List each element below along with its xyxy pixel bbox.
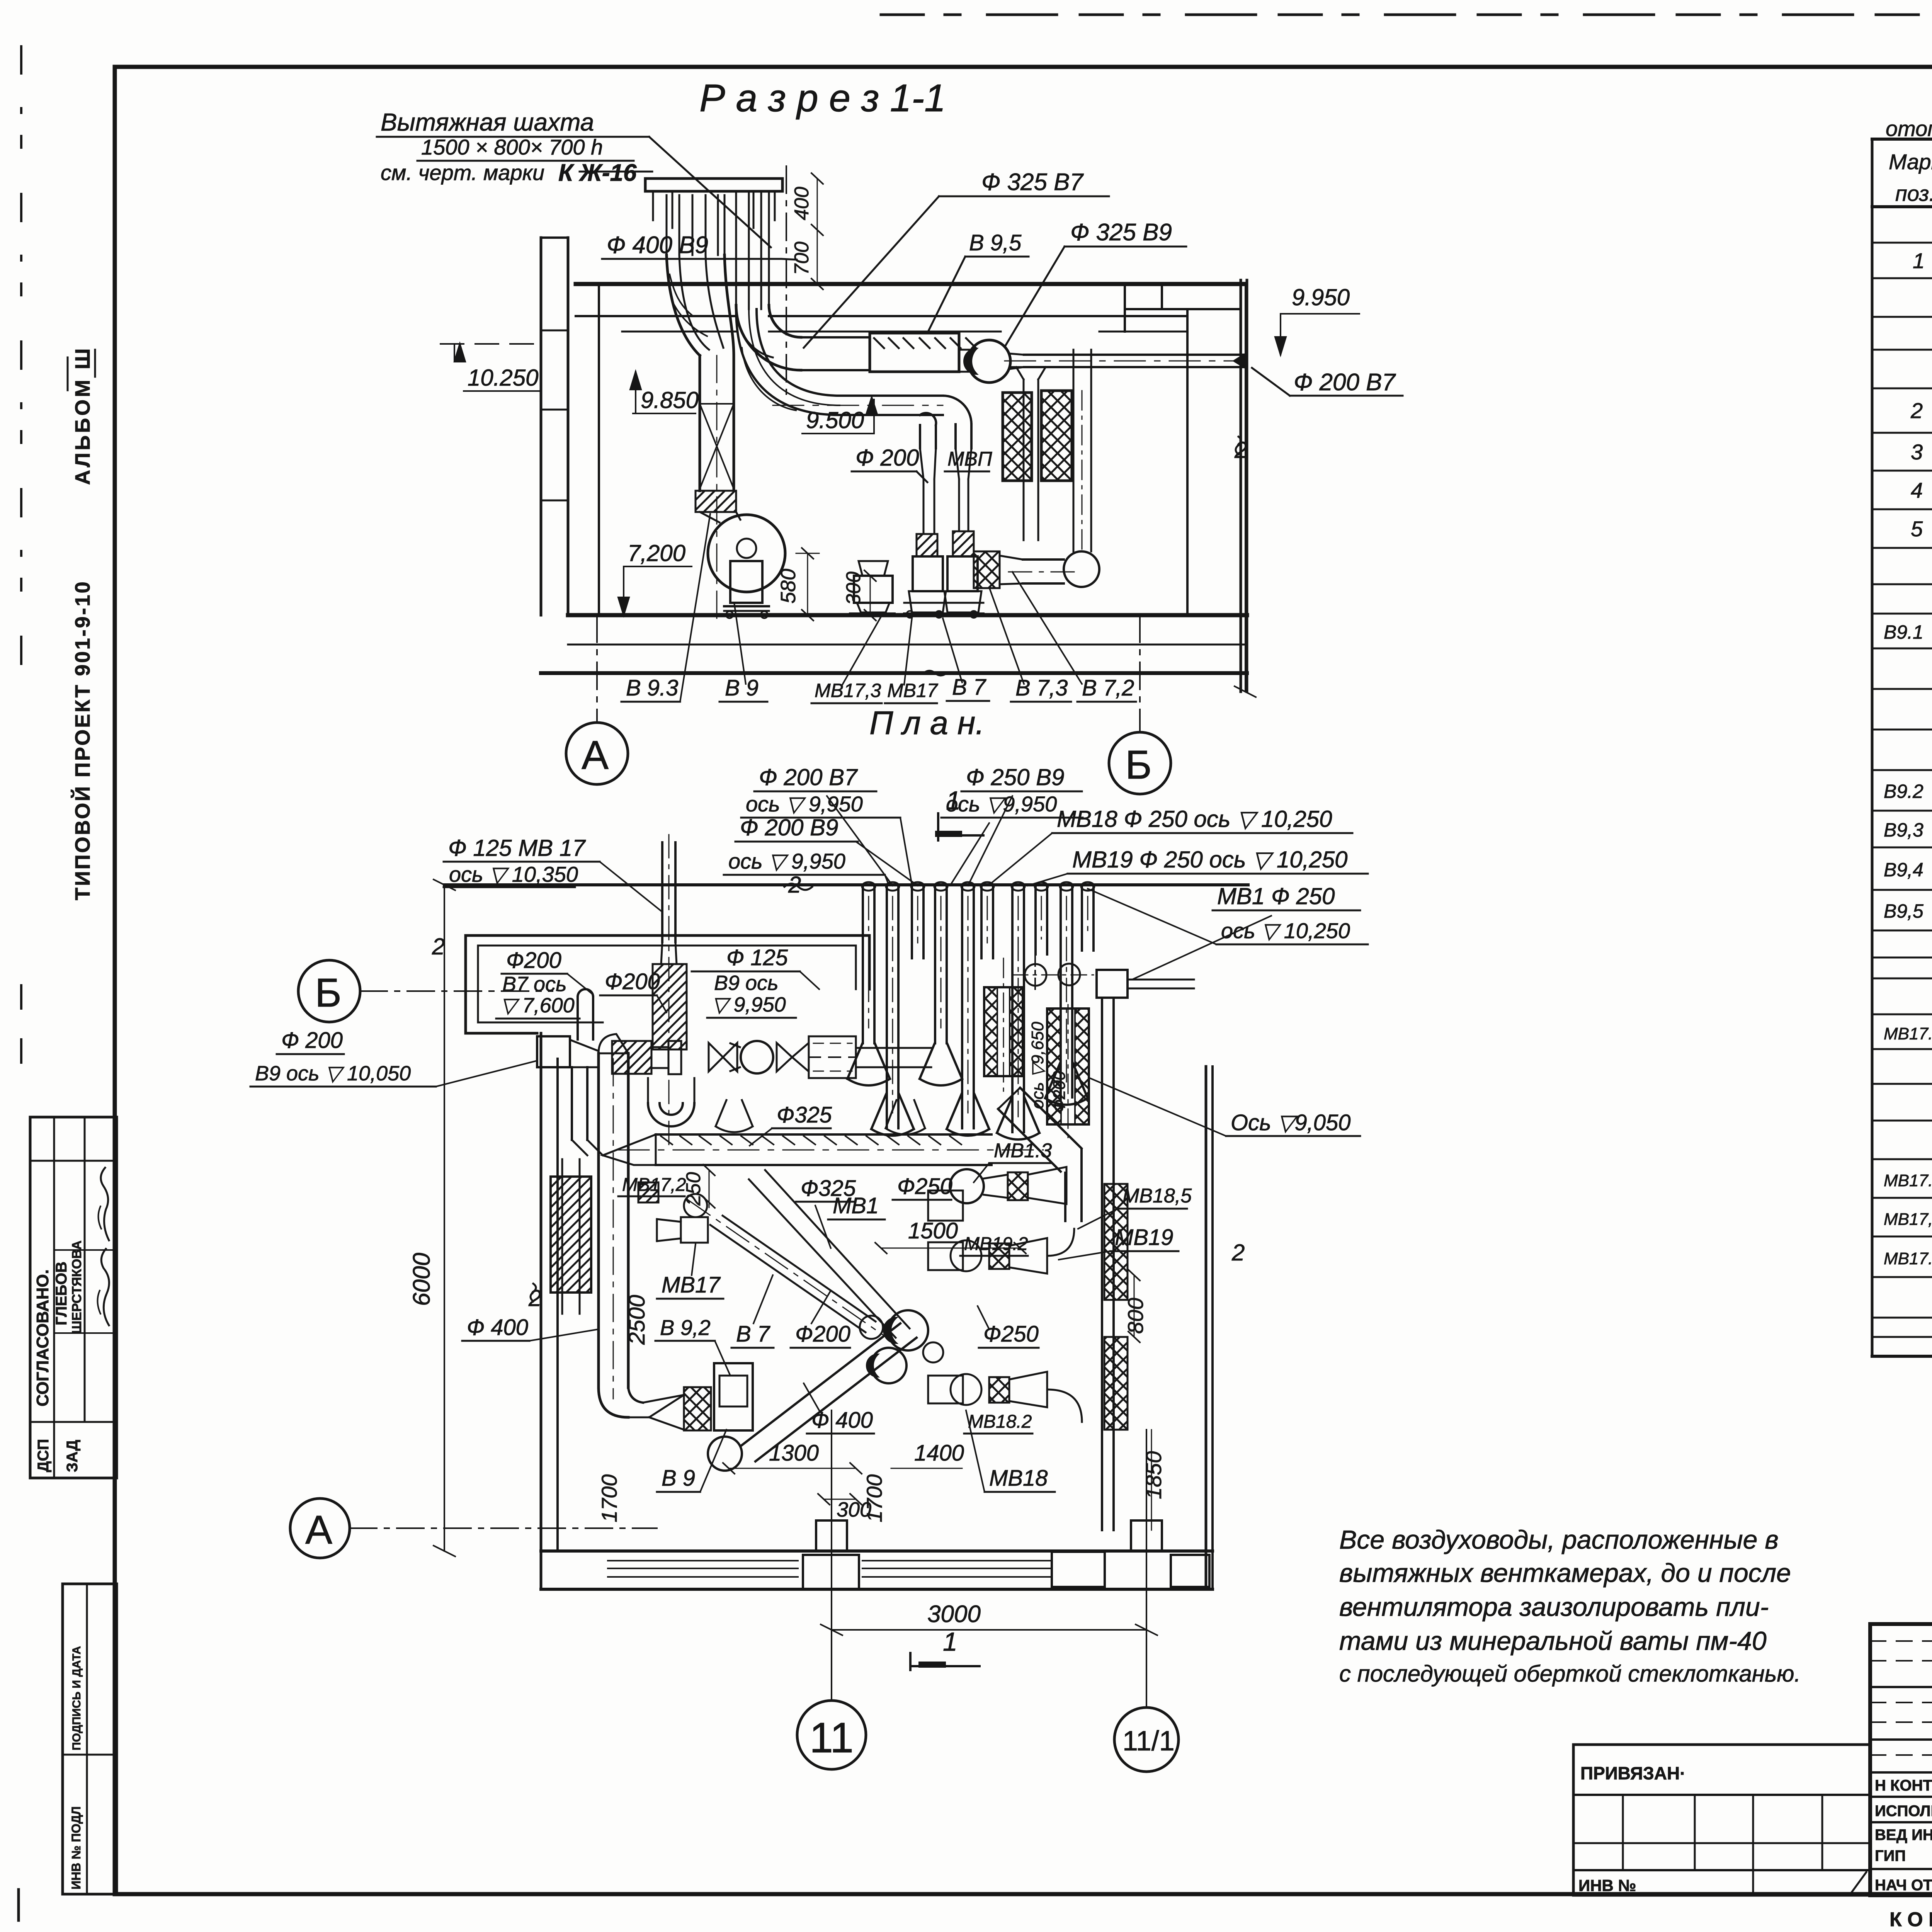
svg-text:вентилятора заизолировать пли-: вентилятора заизолировать пли- bbox=[1339, 1592, 1769, 1622]
bell mouths bbox=[847, 1043, 890, 1079]
svg-text:ось ▽ 9,950: ось ▽ 9,950 bbox=[728, 849, 845, 873]
svg-text:Ф250: Ф250 bbox=[983, 1321, 1039, 1347]
axis line 11/1 bbox=[1146, 1430, 1147, 1707]
dim 400/700 shaft bbox=[817, 179, 818, 284]
svg-text:с последующей оберткой стеклот: с последующей оберткой стеклотканью. bbox=[1339, 1661, 1801, 1687]
svg-text:В9,5: В9,5 bbox=[1884, 900, 1923, 922]
svg-text:1850: 1850 bbox=[1141, 1451, 1166, 1499]
svg-text:МВ17,3: МВ17,3 bbox=[815, 680, 881, 701]
svg-text:А: А bbox=[305, 1507, 332, 1553]
axis circle Б plan bbox=[298, 960, 360, 1022]
svg-text:ИНВ №: ИНВ № bbox=[1578, 1876, 1636, 1895]
svg-text:В 9.3: В 9.3 bbox=[626, 675, 678, 701]
svg-text:В 9,2: В 9,2 bbox=[660, 1315, 711, 1340]
svg-text:ЗАД: ЗАД bbox=[64, 1440, 81, 1472]
svg-text:ось ▽9,950: ось ▽9,950 bbox=[946, 792, 1057, 816]
dim 580 bbox=[807, 553, 808, 615]
svg-text:700: 700 bbox=[791, 241, 813, 275]
svg-text:11: 11 bbox=[810, 1714, 854, 1762]
dim 10.250 bbox=[440, 343, 545, 345]
svg-text:ПОДПИСЬ И ДАТА: ПОДПИСЬ И ДАТА bbox=[70, 1646, 83, 1750]
svg-text:В 7: В 7 bbox=[736, 1321, 771, 1347]
axis squares bottom bbox=[816, 1520, 847, 1551]
long silencer band Ф325 bbox=[656, 1133, 856, 1136]
svg-text:1500 × 800× 700 h: 1500 × 800× 700 h bbox=[421, 135, 603, 159]
flexible inserts (hatch) bbox=[917, 534, 937, 556]
axis circle А plan bbox=[290, 1498, 350, 1558]
U-bend bbox=[648, 1103, 694, 1126]
svg-text:В 9: В 9 bbox=[662, 1466, 695, 1491]
duct Ф400 В9 elbow down-left bbox=[667, 255, 700, 355]
svg-text:МВ19 Ф 250 ось ▽ 10,250: МВ19 Ф 250 ось ▽ 10,250 bbox=[1072, 847, 1347, 872]
svg-text:Р а з р е з 1-1: Р а з р е з 1-1 bbox=[699, 77, 946, 120]
svg-text:СОГЛАСОВАНО.: СОГЛАСОВАНО. bbox=[33, 1269, 52, 1406]
hatched silencers right bbox=[984, 987, 1023, 1076]
svg-text:2: 2 bbox=[432, 934, 445, 959]
svg-text:Ф 200 В7: Ф 200 В7 bbox=[759, 764, 858, 790]
svg-text:В 7,3: В 7,3 bbox=[1015, 675, 1068, 701]
риser bundle (vertical ducts from above) bbox=[862, 887, 864, 1043]
svg-text:ПРИВЯЗАН·: ПРИВЯЗАН· bbox=[1580, 1763, 1686, 1783]
riser pair 2 bbox=[954, 424, 957, 448]
fan В7 (circle with dark crescent) bbox=[968, 340, 1010, 383]
svg-text:Ф 325 В9: Ф 325 В9 bbox=[1070, 219, 1172, 246]
upper chamber walls bbox=[466, 934, 869, 937]
bowtie cones bbox=[709, 1043, 737, 1071]
svg-text:ШЕРСТЯКОВА: ШЕРСТЯКОВА bbox=[70, 1240, 84, 1334]
svg-text:В 7: В 7 bbox=[952, 675, 987, 700]
junction box right bbox=[1097, 970, 1128, 998]
svg-text:ГИП: ГИП bbox=[1875, 1847, 1906, 1864]
svg-text:ИНВ № ПОДЛ: ИНВ № ПОДЛ bbox=[69, 1806, 83, 1889]
svg-text:ДСП: ДСП bbox=[35, 1439, 52, 1472]
flexible insert В9.3 bbox=[696, 491, 736, 512]
svg-text:ВЕД ИНЖ: ВЕД ИНЖ bbox=[1875, 1827, 1932, 1844]
svg-text:К О П И Р О В А Л : Л О Г И Н: К О П И Р О В А Л : Л О Г И Н О В А bbox=[1889, 1908, 1932, 1931]
svg-text:ось ▽ 9,950: ось ▽ 9,950 bbox=[746, 792, 863, 816]
signatures bbox=[101, 1168, 109, 1240]
svg-text:вытяжных венткамерах, до и пос: вытяжных венткамерах, до и после bbox=[1339, 1558, 1791, 1588]
svg-text:Ф 250 В9: Ф 250 В9 bbox=[966, 764, 1065, 790]
svg-text:МВ1: МВ1 bbox=[833, 1193, 879, 1218]
dim 9.850 bbox=[630, 372, 641, 389]
diagonal duct Ф200 В7 bbox=[710, 1225, 866, 1332]
svg-text:1300: 1300 bbox=[769, 1440, 819, 1466]
title block bbox=[1870, 1624, 1932, 1895]
МВ18.2 unit bbox=[928, 1376, 963, 1403]
right wall and beam bbox=[1240, 280, 1242, 692]
svg-text:В9 ось: В9 ось bbox=[714, 971, 778, 995]
svg-text:В 9,5: В 9,5 bbox=[969, 230, 1022, 255]
svg-text:В 9: В 9 bbox=[725, 675, 759, 701]
pipe В7 vertical bbox=[578, 989, 593, 997]
МВ19.2 unit bbox=[928, 1242, 963, 1270]
sidebar table ИНВ/ПОДПИСЬ bbox=[63, 1584, 117, 1894]
bells under risers bbox=[716, 1100, 753, 1132]
svg-text:7,200: 7,200 bbox=[628, 540, 685, 566]
svg-text:800: 800 bbox=[1123, 1298, 1148, 1334]
long duct Ф200 В7 to right bbox=[1024, 354, 1244, 356]
valves bbox=[1025, 964, 1046, 986]
svg-text:МВ17. 4: МВ17. 4 bbox=[1884, 1249, 1932, 1268]
svg-text:Ось ▽9,050: Ось ▽9,050 bbox=[1231, 1110, 1350, 1135]
scan artifact: left edge dashed line bbox=[20, 46, 22, 680]
axis circle Б section bbox=[1109, 732, 1171, 794]
plan left wall bbox=[540, 1033, 543, 1589]
scan artifact: top edge dashed line bbox=[881, 14, 1932, 16]
svg-text:В9 ось ▽ 10,050: В9 ось ▽ 10,050 bbox=[255, 1062, 411, 1085]
svg-text:П л а н.: П л а н. bbox=[869, 705, 985, 742]
svg-text:В9.1: В9.1 bbox=[1884, 621, 1923, 643]
elbow Ф200 lower bbox=[736, 309, 840, 415]
svg-text:МВ18: МВ18 bbox=[989, 1466, 1048, 1491]
svg-text:Ф 125: Ф 125 bbox=[726, 945, 788, 970]
svg-text:2500: 2500 bbox=[624, 1295, 650, 1345]
axis circle А section bbox=[566, 723, 628, 784]
svg-text:▽ 7,600: ▽ 7,600 bbox=[500, 994, 575, 1017]
svg-text:Ф200: Ф200 bbox=[795, 1321, 850, 1347]
elbow circle В7.2 bbox=[1064, 551, 1099, 587]
svg-text:9.950: 9.950 bbox=[1292, 284, 1350, 310]
svg-text:Ф 400: Ф 400 bbox=[811, 1408, 873, 1433]
silencer B9.5 bbox=[870, 333, 959, 372]
elbow Ф325 to horizontal duct bbox=[736, 305, 801, 370]
svg-text:Ф200: Ф200 bbox=[1050, 1071, 1069, 1113]
svg-text:Ф 400 В9: Ф 400 В9 bbox=[607, 232, 708, 259]
flex + cone to elbow В7.2 bbox=[974, 551, 1000, 588]
svg-text:Ф 200 В9: Ф 200 В9 bbox=[740, 815, 838, 840]
svg-text:300: 300 bbox=[837, 1498, 871, 1521]
fan В9 scroll bbox=[708, 515, 785, 592]
duct В9 with filter cross bbox=[699, 355, 701, 491]
axis circle 11 bbox=[797, 1701, 866, 1769]
ceiling slab bbox=[576, 282, 1245, 286]
axis line 11 bbox=[831, 1410, 832, 1700]
left wall column bbox=[540, 238, 543, 615]
svg-text:В 7,2: В 7,2 bbox=[1082, 675, 1134, 701]
svg-text:Б: Б bbox=[315, 970, 342, 1015]
svg-text:1500: 1500 bbox=[908, 1218, 958, 1243]
svg-text:2: 2 bbox=[1231, 1240, 1245, 1265]
svg-text:МВ18,5: МВ18,5 bbox=[1122, 1185, 1192, 1207]
horizontal duct Ф200 МВ17 level bbox=[840, 395, 943, 397]
svg-text:МВ1 Ф 250: МВ1 Ф 250 bbox=[1217, 883, 1335, 909]
svg-text:Ф200: Ф200 bbox=[605, 969, 660, 994]
section cut mark bottom bbox=[909, 1653, 912, 1670]
svg-text:МВ17.2: МВ17.2 bbox=[1884, 1171, 1932, 1190]
axis circle 11/1 bbox=[1114, 1708, 1179, 1772]
dim 6000 left bbox=[444, 885, 445, 1551]
svg-text:Вытяжная шахта: Вытяжная шахта bbox=[381, 108, 594, 136]
svg-text:Ф250: Ф250 bbox=[897, 1174, 952, 1199]
diagonal duct Ф325 bbox=[749, 1179, 896, 1338]
fans МВ17/В7 on floor bbox=[913, 556, 943, 591]
upper assembly row (МВ17 suction) bbox=[537, 1036, 570, 1067]
duct Ф250 down right side bbox=[1101, 998, 1103, 1530]
svg-text:поз.: поз. bbox=[1895, 181, 1932, 206]
svg-text:ИСПОЛН: ИСПОЛН bbox=[1875, 1803, 1932, 1820]
svg-text:А: А bbox=[582, 733, 609, 778]
svg-text:300: 300 bbox=[842, 571, 865, 605]
svg-text:отопительно-вентиляционных ус: отопительно-вентиляционных установок bbox=[1886, 116, 1932, 141]
hatched duct on left wall bbox=[551, 1177, 591, 1293]
svg-text:Н КОНТР: Н КОНТР bbox=[1875, 1777, 1932, 1794]
svg-text:9.850: 9.850 bbox=[641, 387, 699, 413]
floor slab bbox=[568, 613, 1247, 617]
diagonal duct to МВ19 bbox=[998, 1109, 1061, 1172]
section cut mark top bbox=[937, 813, 939, 840]
svg-text:1700: 1700 bbox=[597, 1474, 621, 1522]
bell circle bbox=[741, 1041, 773, 1073]
svg-text:МВ1.3: МВ1.3 bbox=[994, 1139, 1052, 1162]
svg-text:МВ19: МВ19 bbox=[1115, 1225, 1173, 1250]
svg-text:400: 400 bbox=[791, 187, 813, 220]
svg-text:МВ17,2: МВ17,2 bbox=[622, 1175, 686, 1195]
svg-text:1400: 1400 bbox=[914, 1440, 964, 1466]
svg-text:АЛЬБОМ Ш: АЛЬБОМ Ш bbox=[71, 346, 94, 485]
svg-text:6000: 6000 bbox=[408, 1253, 435, 1306]
leader lines to risers bbox=[827, 796, 893, 886]
svg-text:1: 1 bbox=[943, 1627, 957, 1656]
svg-text:1: 1 bbox=[1913, 248, 1925, 273]
svg-text:9.500: 9.500 bbox=[806, 407, 864, 433]
svg-text:3: 3 bbox=[1911, 440, 1923, 464]
svg-text:ТИПОВОЙ ПРОЕКТ 901-9-10: ТИПОВОЙ ПРОЕКТ 901-9-10 bbox=[71, 580, 94, 900]
continuation right bbox=[856, 1047, 931, 1049]
svg-text:11/1: 11/1 bbox=[1122, 1726, 1175, 1757]
svg-text:Ф325: Ф325 bbox=[777, 1102, 832, 1128]
МВ1 fan unit bbox=[928, 1190, 963, 1221]
svg-text:5: 5 bbox=[1911, 517, 1923, 541]
band left corner elbow bbox=[603, 1134, 656, 1165]
svg-text:В9,3: В9,3 bbox=[1884, 819, 1923, 841]
riser pair 1 bbox=[919, 425, 921, 448]
svg-text:2: 2 bbox=[1910, 398, 1923, 423]
svg-text:МВ18.2: МВ18.2 bbox=[968, 1412, 1032, 1432]
svg-text:МВ17,3: МВ17,3 bbox=[1884, 1210, 1932, 1229]
svg-text:В9.2: В9.2 bbox=[1884, 781, 1923, 802]
Ф400 bottom elbow and cone to В9.2 bbox=[599, 1388, 628, 1417]
plan top wall bbox=[444, 883, 1248, 886]
svg-text:ось ▽9,650: ось ▽9,650 bbox=[1028, 1022, 1047, 1109]
horizontal duct to silencer B9.5 bbox=[801, 336, 870, 338]
svg-text:МВ17: МВ17 bbox=[662, 1272, 721, 1298]
elbow down to risers bbox=[943, 396, 971, 424]
bowtie 2 bbox=[777, 1043, 809, 1071]
svg-text:580: 580 bbox=[777, 569, 800, 604]
right lower hatched boxes bbox=[1104, 1184, 1128, 1300]
svg-text:МВ17.1: МВ17.1 bbox=[1884, 1024, 1932, 1043]
shaft duct bundle bbox=[666, 195, 668, 255]
svg-text:4: 4 bbox=[1911, 478, 1923, 502]
svg-text:МВП: МВП bbox=[947, 448, 992, 470]
svg-text:МВ19.2: МВ19.2 bbox=[964, 1234, 1028, 1254]
svg-text:ось ▽ 10,350: ось ▽ 10,350 bbox=[449, 862, 578, 886]
svg-text:Ф 200 В7: Ф 200 В7 bbox=[1294, 369, 1396, 396]
svg-text:НАЧ ОТД: НАЧ ОТД bbox=[1875, 1877, 1932, 1894]
МВ17 fan unit bbox=[684, 1194, 707, 1217]
riser Ф200 В9 (hatched) bbox=[653, 964, 687, 1049]
svg-text:Ф 125 МВ 17: Ф 125 МВ 17 bbox=[448, 835, 586, 861]
svg-text:Ф 200: Ф 200 bbox=[855, 445, 919, 471]
sidebar table СОГЛАСОВАНО bbox=[30, 1117, 117, 1478]
svg-text:10.250: 10.250 bbox=[468, 365, 539, 391]
svg-text:см. черт. марки: см. черт. марки bbox=[381, 160, 544, 185]
svg-text:В9,4: В9,4 bbox=[1884, 859, 1923, 881]
МВ17 fan unit left bbox=[854, 576, 893, 603]
privyazan table bbox=[1573, 1743, 1870, 1746]
svg-text:МВ18 Ф 250 ось ▽ 10,250: МВ18 Ф 250 ось ▽ 10,250 bbox=[1057, 806, 1332, 832]
silencer ШТК-1 pair (cross-hatched) bbox=[1003, 393, 1032, 481]
svg-text:К Ж-16: К Ж-16 bbox=[558, 160, 637, 186]
right extension line bbox=[1245, 284, 1246, 692]
exhaust shaft cap bbox=[645, 179, 782, 191]
fan В9.2 bbox=[714, 1363, 753, 1430]
svg-text:3000: 3000 bbox=[927, 1601, 981, 1628]
plan right wall bbox=[1205, 1066, 1207, 1589]
cross tee bbox=[668, 1041, 681, 1074]
duct open end circles bbox=[888, 1310, 928, 1350]
svg-text:Ф 325 В7: Ф 325 В7 bbox=[981, 169, 1084, 196]
svg-text:Ф200: Ф200 bbox=[506, 948, 561, 973]
svg-text:▽ 9,950: ▽ 9,950 bbox=[712, 993, 786, 1016]
svg-text:Б: Б bbox=[1125, 742, 1152, 787]
plan bottom wall with windows bbox=[541, 1549, 1213, 1553]
svg-text:Марка: Марка bbox=[1889, 150, 1932, 174]
svg-text:В7 ось: В7 ось bbox=[502, 973, 566, 996]
dim 300 bbox=[870, 576, 871, 615]
svg-text:тами из минеральной ваты пм-40: тами из минеральной ваты пм-40 bbox=[1339, 1626, 1767, 1656]
duct bundle right bbox=[735, 191, 737, 309]
svg-text:ГЛЕБОВ: ГЛЕБОВ bbox=[53, 1262, 70, 1325]
flexible connector dashed box bbox=[809, 1036, 856, 1078]
left Ф400 vertical duct bbox=[597, 1053, 600, 1388]
svg-text:Ф 400: Ф 400 bbox=[467, 1315, 528, 1340]
svg-text:Все воздуховоды, расположенные: Все воздуховоды, расположенные в bbox=[1339, 1525, 1779, 1554]
svg-text:Ф 200: Ф 200 bbox=[281, 1028, 343, 1053]
cone to duct bbox=[1009, 354, 1024, 355]
svg-text:МВ17: МВ17 bbox=[887, 680, 939, 701]
